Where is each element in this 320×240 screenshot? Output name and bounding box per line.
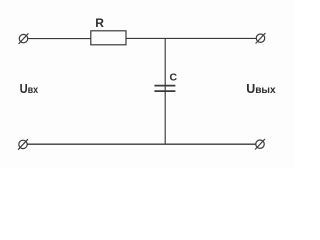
terminal output top (circle with slash): [256, 33, 266, 44]
wire top-right segment: [126, 37, 256, 39]
terminal input bottom (circle with slash): [18, 139, 28, 150]
svg-text:Uвх: Uвх: [20, 81, 39, 96]
svg-text:C: C: [170, 72, 178, 84]
terminal input top (circle with slash): [19, 33, 29, 44]
resistor R: [91, 31, 126, 45]
terminal output bottom (circle with slash): [255, 139, 265, 150]
wire top-left segment: [28, 38, 91, 40]
capacitor C (two plates): [154, 86, 175, 92]
svg-text:R: R: [95, 16, 104, 30]
wire vertical (node to capacitor to bottom rail): [164, 38, 166, 144]
wire bottom rail: [27, 143, 256, 145]
svg-text:Uвых: Uвых: [246, 81, 276, 96]
